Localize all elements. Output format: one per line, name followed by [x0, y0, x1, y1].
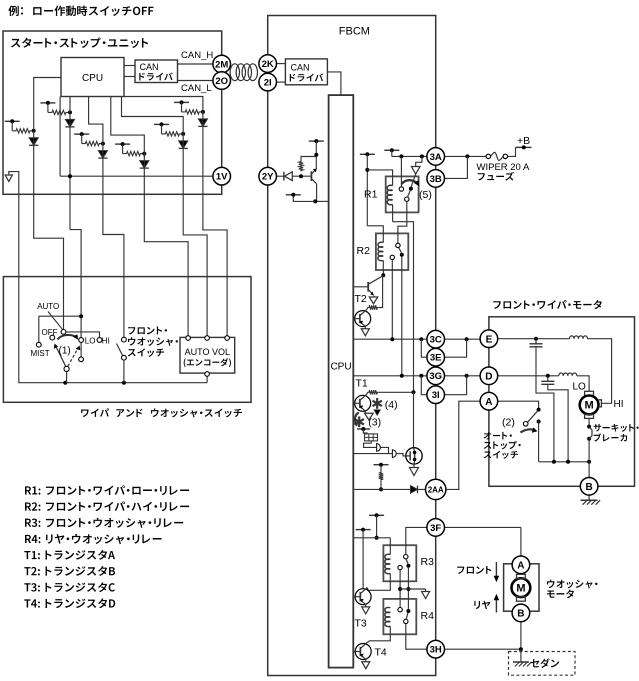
svg-text:OFF: OFF: [42, 328, 58, 337]
svg-text:CAN: CAN: [291, 63, 310, 73]
svg-text:2I: 2I: [264, 78, 272, 89]
svg-text:(2): (2): [502, 417, 515, 429]
svg-text:HI: HI: [614, 399, 624, 410]
svg-text:R3: R3: [421, 556, 435, 568]
svg-text:2Y: 2Y: [262, 172, 274, 183]
svg-text:CAN_L: CAN_L: [181, 83, 212, 94]
svg-text:CAN_H: CAN_H: [181, 50, 213, 61]
svg-text:(1): (1): [59, 346, 71, 357]
svg-text:D: D: [485, 371, 492, 382]
svg-text:B: B: [585, 482, 592, 493]
svg-text:T4: T4: [375, 647, 387, 659]
svg-text:E: E: [486, 334, 493, 345]
svg-text:3E: 3E: [430, 353, 442, 364]
svg-text:AUTO VOL: AUTO VOL: [185, 347, 230, 357]
svg-text:M: M: [516, 582, 525, 594]
svg-text:LO: LO: [573, 382, 587, 393]
svg-text:+B: +B: [517, 135, 530, 147]
svg-text:3G: 3G: [429, 371, 442, 382]
svg-text:(3): (3): [368, 417, 381, 429]
svg-text:2AA: 2AA: [428, 485, 444, 494]
svg-text:2O: 2O: [215, 76, 228, 87]
svg-text:3H: 3H: [430, 645, 442, 656]
svg-text:LO: LO: [85, 337, 96, 346]
svg-text:3A: 3A: [430, 152, 442, 163]
svg-text:T3: T3: [355, 618, 367, 630]
svg-text:T2: T2: [355, 293, 367, 305]
svg-text:CPU: CPU: [82, 73, 103, 84]
svg-text:AUTO: AUTO: [37, 302, 59, 311]
svg-text:(5): (5): [419, 189, 432, 201]
svg-text:1V: 1V: [216, 172, 228, 183]
svg-text:R1: R1: [364, 189, 378, 201]
svg-text:M: M: [585, 400, 594, 412]
svg-text:CAN: CAN: [140, 62, 159, 72]
svg-text:(4): (4): [385, 399, 398, 411]
svg-text:R2: R2: [357, 245, 371, 257]
svg-text:3C: 3C: [430, 335, 442, 346]
svg-text:3F: 3F: [430, 523, 441, 534]
svg-text:3B: 3B: [430, 174, 442, 185]
svg-text:A: A: [517, 560, 524, 571]
svg-text:2K: 2K: [262, 59, 274, 70]
svg-text:FBCM: FBCM: [339, 26, 370, 38]
svg-text:R4: R4: [421, 610, 435, 622]
svg-text:A: A: [485, 397, 492, 408]
svg-text:3I: 3I: [432, 390, 440, 401]
svg-text:T1: T1: [356, 378, 368, 390]
svg-text:B: B: [517, 609, 524, 620]
svg-text:WIPER 20 A: WIPER 20 A: [477, 162, 530, 173]
svg-text:MIST: MIST: [31, 349, 50, 358]
svg-text:CPU: CPU: [330, 362, 351, 373]
svg-text:2M: 2M: [215, 59, 228, 70]
svg-text:HI: HI: [102, 337, 110, 346]
